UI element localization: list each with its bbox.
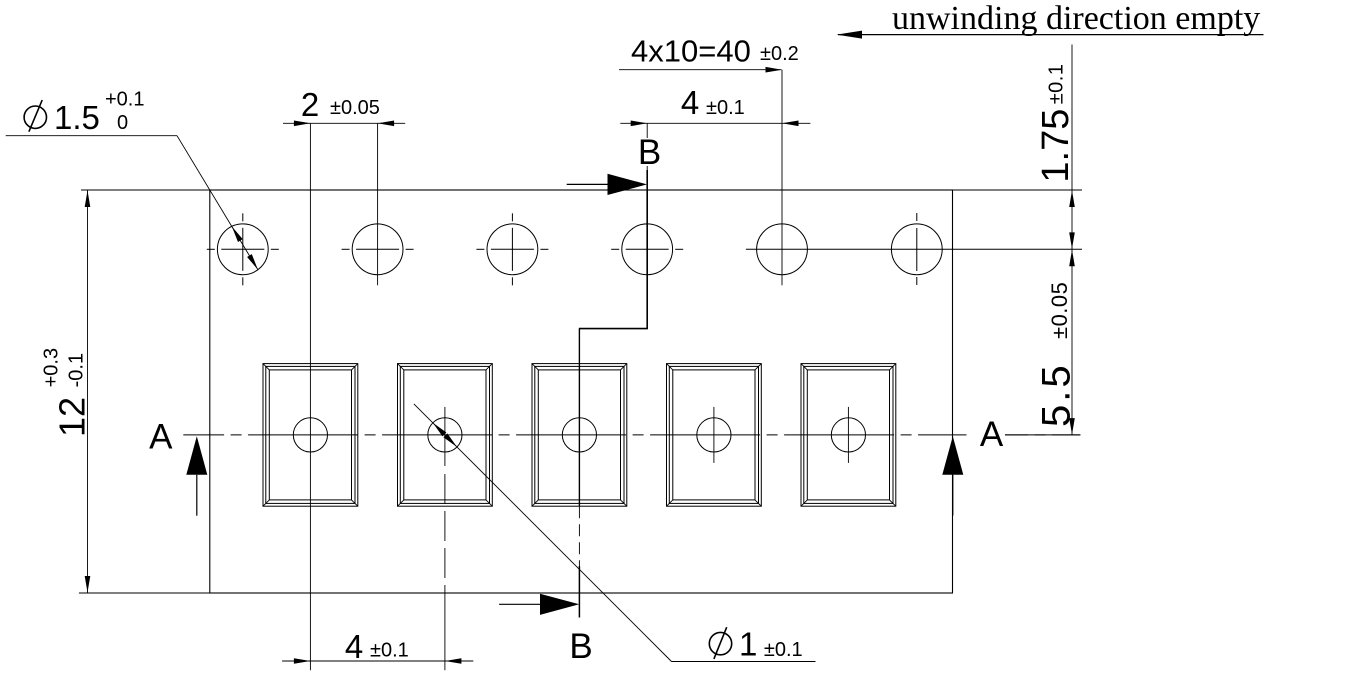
callout dia 1.5 arrow lower xyxy=(247,254,258,270)
svg-text:2: 2 xyxy=(301,86,319,123)
dim 2 arrow left xyxy=(294,121,311,127)
sprocket hole S4 xyxy=(622,224,673,275)
callout dia 1.5 leader horizontal xyxy=(6,135,177,137)
svg-text:-0.1: -0.1 xyxy=(66,353,88,387)
mask behind right section label A xyxy=(967,420,1006,447)
component pocket P1 xyxy=(263,364,358,507)
svg-text:±0.1: ±0.1 xyxy=(1046,64,1068,105)
svg-text:4x10=40: 4x10=40 xyxy=(631,33,751,68)
dim 4 top dimension line xyxy=(620,122,810,124)
sprocket hole S1 xyxy=(217,224,268,275)
svg-text:±0.1: ±0.1 xyxy=(706,97,745,119)
svg-text:unwinding direction empty: unwinding direction empty xyxy=(892,0,1260,37)
dim 1.75 arrow down xyxy=(1069,232,1075,249)
section arrow B bottom xyxy=(499,603,540,605)
pocket hole of P4 xyxy=(697,418,731,452)
dim 2 arrow right xyxy=(378,121,395,127)
svg-text:12: 12 xyxy=(52,397,93,437)
svg-text:B: B xyxy=(569,627,592,666)
pocket P5 hole crosshair xyxy=(847,407,849,463)
dim 4 bottom arrow right xyxy=(445,658,462,664)
svg-text:5.5: 5.5 xyxy=(1035,362,1079,427)
dim 4 top arrow left xyxy=(631,121,648,127)
dim 4 bottom dimension line xyxy=(282,660,473,662)
callout dia 1 arrow upper xyxy=(433,423,447,437)
svg-text:±0.05: ±0.05 xyxy=(330,97,380,119)
svg-text:±0.1: ±0.1 xyxy=(764,639,803,661)
svg-text:±0.05: ±0.05 xyxy=(1047,282,1072,339)
section arrow B top xyxy=(567,183,608,185)
svg-text:0: 0 xyxy=(117,112,128,134)
svg-text:±0.2: ±0.2 xyxy=(760,43,799,65)
sprocket hole S5 xyxy=(757,224,808,275)
dim 5.5 arrow up xyxy=(1069,250,1075,267)
section arrow A left xyxy=(196,475,198,516)
svg-text:A: A xyxy=(149,418,173,457)
section line A-A centreline xyxy=(183,434,1080,436)
svg-text:B: B xyxy=(638,133,661,172)
pocket hole of P5 xyxy=(831,418,865,452)
callout dia 1 diameter symbol xyxy=(709,632,731,654)
dim 4 bottom arrow left xyxy=(294,658,311,664)
section line A-A solid right end xyxy=(1005,434,1080,436)
svg-text:+0.1: +0.1 xyxy=(105,89,144,111)
dim 2 dimension line xyxy=(283,122,405,124)
sprocket hole S2 xyxy=(352,224,403,275)
pocket P2 centreline / extension line (bottom dim 4) xyxy=(444,407,446,466)
section arrow A right xyxy=(952,475,954,516)
svg-text:4: 4 xyxy=(345,628,363,665)
pocket P1 centreline / extension line (dim 2 and bottom dim 4) xyxy=(309,123,311,670)
dim 1.75 extension line (tape top edge right) xyxy=(953,189,1083,191)
callout dia 1.5 leader diagonal xyxy=(177,136,258,270)
callout dia 1 leader diagonal xyxy=(414,404,672,662)
svg-text:+0.3: +0.3 xyxy=(41,348,63,387)
callout dia 1 leader underline xyxy=(672,661,816,663)
section line B-B lower segment xyxy=(578,329,580,507)
dim 1.75 / 5.5 dimension line xyxy=(1071,45,1073,435)
dim 12 extension line top left xyxy=(81,189,210,191)
dim 4 top extension line (sprocket S5 centre) xyxy=(781,70,783,286)
svg-text:1.5: 1.5 xyxy=(54,99,100,136)
dim 12 dimension line xyxy=(87,191,89,593)
dim 2 extension line (sprocket S2 centre) xyxy=(377,123,379,285)
dim 4 top arrow right xyxy=(782,121,799,127)
unwinding direction arrowhead xyxy=(837,31,863,39)
section line B-B upper segment xyxy=(646,123,648,170)
pocket P4 hole crosshair xyxy=(713,407,715,463)
dim 12 arrow down xyxy=(85,576,91,593)
callout dia 1 arrow lower xyxy=(443,433,457,447)
dim 5.5 arrow down xyxy=(1069,418,1075,435)
callout dia 1.5 diameter symbol xyxy=(24,106,46,128)
mask behind top section label B xyxy=(639,138,660,166)
svg-text:A: A xyxy=(980,415,1004,454)
unwinding direction arrow line xyxy=(838,34,1264,36)
component pocket P2 xyxy=(398,364,493,507)
pocket hole of P3 xyxy=(562,418,596,452)
svg-text:4: 4 xyxy=(681,84,699,121)
component pocket P4 xyxy=(667,364,762,507)
callout dia 1.5 arrow upper xyxy=(232,226,243,242)
component pocket P5 xyxy=(801,364,896,507)
sprocket hole S3 xyxy=(487,224,538,275)
pocket hole of P1 xyxy=(293,418,327,452)
dim 12 extension line bottom left xyxy=(79,592,210,594)
dim 4x10=40 arrow right xyxy=(766,67,783,73)
dim 1.75 arrow up xyxy=(1069,191,1075,208)
svg-text:1.75: 1.75 xyxy=(1035,109,1077,183)
section line B-B step xyxy=(579,328,648,330)
svg-text:±0.1: ±0.1 xyxy=(370,640,409,662)
dim 4x10=40 dimension line xyxy=(619,69,781,71)
svg-text:1: 1 xyxy=(739,626,757,663)
pocket hole of P2 xyxy=(428,418,462,452)
dim 12 arrow up xyxy=(85,191,91,208)
sprocket hole S6 xyxy=(891,224,942,275)
sprocket centreline extension right xyxy=(746,248,1082,250)
component pocket P3 xyxy=(532,364,627,507)
carrier tape outline xyxy=(210,190,953,593)
